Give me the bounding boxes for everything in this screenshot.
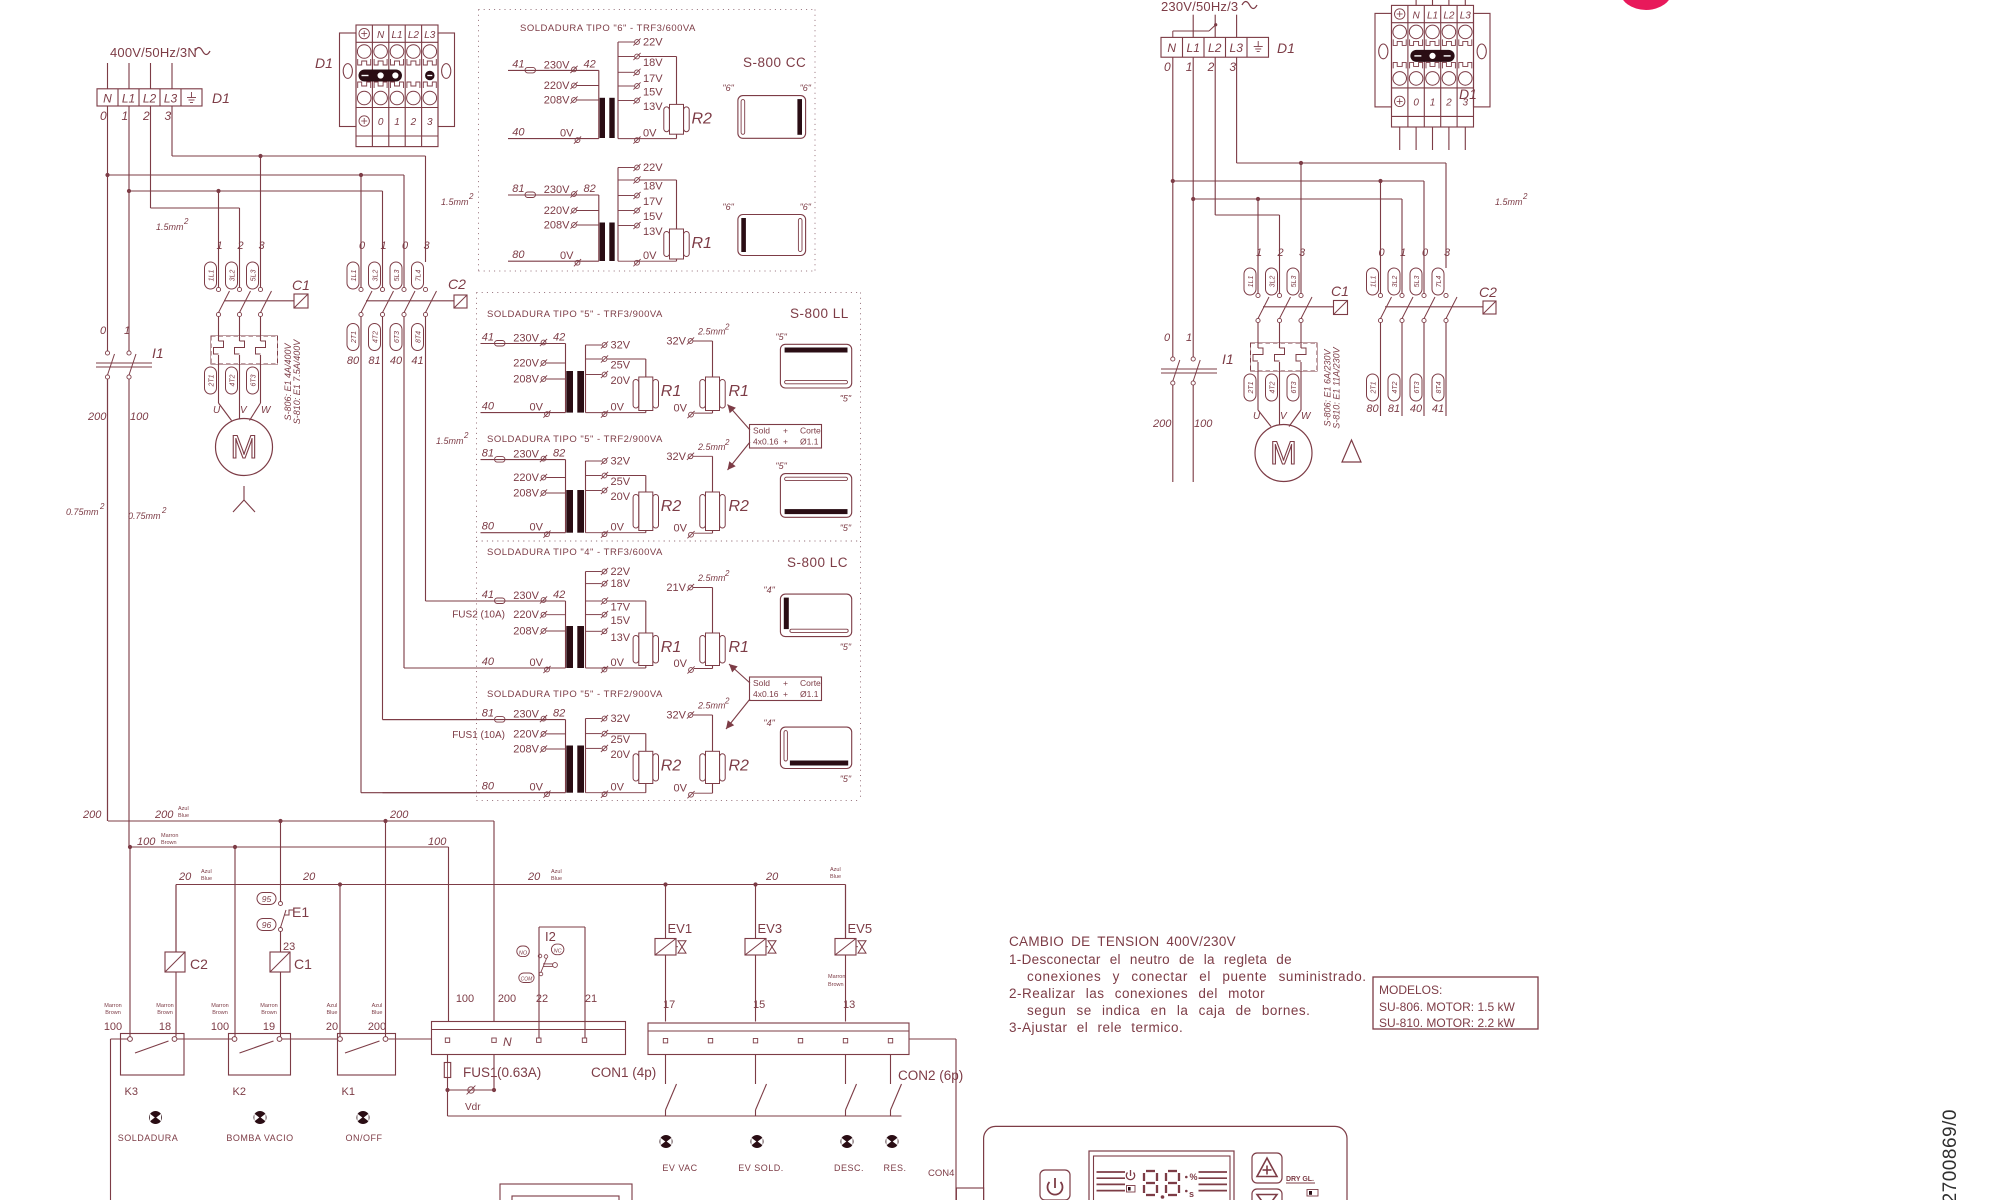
svg-text:2.5mm: 2.5mm (697, 442, 726, 452)
svg-text:2: 2 (99, 502, 105, 511)
svg-text:L2: L2 (408, 30, 420, 41)
svg-text:D1: D1 (1459, 86, 1477, 102)
svg-text:Corte: Corte (800, 426, 821, 436)
svg-text:32V: 32V (666, 710, 686, 722)
svg-text:15V: 15V (643, 87, 663, 99)
svg-text:S-800 LL: S-800 LL (790, 306, 849, 321)
svg-text:"6": "6" (722, 83, 734, 93)
svg-text:0V: 0V (674, 658, 688, 670)
svg-text:0: 0 (100, 325, 107, 337)
svg-text:M: M (1270, 435, 1297, 471)
svg-text:"5": "5" (840, 523, 852, 533)
svg-text:6T3: 6T3 (1291, 381, 1298, 393)
svg-text:Marron: Marron (161, 833, 178, 839)
svg-text:ON/OFF: ON/OFF (346, 1133, 383, 1143)
svg-text:Azul: Azul (327, 1003, 338, 1009)
svg-text:1L1: 1L1 (351, 270, 358, 282)
svg-text:1.5mm: 1.5mm (436, 436, 464, 446)
svg-text:230V: 230V (513, 709, 539, 721)
svg-text:N: N (1412, 10, 1420, 21)
svg-text:- 2700869/0: - 2700869/0 (1940, 1109, 1961, 1200)
svg-text:200: 200 (82, 809, 102, 821)
svg-text:80: 80 (482, 521, 495, 533)
svg-text:K3: K3 (125, 1086, 138, 1098)
svg-text:D1: D1 (212, 90, 230, 106)
svg-text:0V: 0V (611, 782, 625, 794)
svg-text:208V: 208V (513, 744, 539, 756)
svg-text:0V: 0V (643, 128, 657, 140)
svg-text:7L4: 7L4 (1436, 276, 1443, 288)
svg-text:1L1: 1L1 (1248, 276, 1255, 288)
svg-text:Azul: Azul (201, 869, 212, 875)
svg-text:200: 200 (389, 809, 409, 821)
svg-text:SOLDADURA: SOLDADURA (118, 1133, 179, 1143)
svg-text:Vdr: Vdr (465, 1102, 481, 1113)
svg-text:42: 42 (584, 58, 596, 70)
svg-text:"6": "6" (722, 202, 734, 212)
svg-text:96: 96 (262, 920, 272, 930)
svg-text:+: + (783, 437, 788, 447)
svg-text:I1: I1 (152, 345, 164, 361)
svg-text:Blue: Blue (551, 876, 562, 882)
svg-text:17: 17 (663, 999, 675, 1011)
svg-text:230V: 230V (544, 184, 570, 196)
svg-text:95: 95 (262, 894, 272, 904)
svg-text:"5": "5" (775, 332, 787, 342)
svg-text:2.5mm: 2.5mm (697, 327, 726, 337)
svg-text:208V: 208V (544, 220, 570, 232)
svg-text:Marron: Marron (104, 1003, 121, 1009)
svg-text:FUS1 (10A): FUS1 (10A) (452, 730, 505, 741)
svg-text:SOLDADURA TIPO "5" - TRF2/900V: SOLDADURA TIPO "5" - TRF2/900VA (487, 434, 663, 445)
svg-text:S-810: E1 7.5A/400V: S-810: E1 7.5A/400V (292, 339, 302, 425)
svg-text:0: 0 (378, 117, 384, 128)
svg-text:40: 40 (482, 401, 495, 413)
svg-text:R1: R1 (692, 235, 712, 252)
svg-text:Brown: Brown (105, 1010, 121, 1016)
svg-text:40: 40 (390, 355, 403, 367)
svg-text:0V: 0V (560, 128, 574, 140)
svg-text:100: 100 (1194, 418, 1213, 430)
svg-text:1: 1 (122, 109, 129, 123)
svg-text:22V: 22V (643, 162, 663, 174)
svg-text:100: 100 (137, 836, 156, 848)
svg-text:L3: L3 (1230, 41, 1244, 55)
svg-text:0: 0 (1379, 247, 1386, 259)
svg-text:L2: L2 (143, 91, 157, 105)
svg-text:L2: L2 (1208, 41, 1222, 55)
svg-text:SOLDADURA TIPO "6" - TRF3/600V: SOLDADURA TIPO "6" - TRF3/600VA (520, 23, 696, 34)
svg-text:R2: R2 (692, 110, 713, 127)
svg-text:"5": "5" (840, 642, 852, 652)
svg-text:200: 200 (498, 993, 516, 1005)
svg-text:2: 2 (1522, 192, 1528, 201)
svg-text:32V: 32V (666, 451, 686, 463)
svg-text:1: 1 (1430, 97, 1436, 108)
svg-text:32V: 32V (611, 456, 631, 468)
svg-text:81: 81 (482, 448, 494, 460)
svg-text:EV3: EV3 (758, 921, 783, 936)
svg-text:FUS2 (10A): FUS2 (10A) (452, 610, 505, 621)
svg-text:D1: D1 (315, 55, 333, 71)
svg-text:R1: R1 (729, 383, 749, 400)
svg-text:80: 80 (1366, 403, 1379, 415)
svg-text:Brown: Brown (212, 1010, 228, 1016)
svg-text:1L1: 1L1 (1371, 276, 1378, 288)
svg-text:2T1: 2T1 (1248, 381, 1255, 394)
svg-text:Azul: Azul (178, 806, 189, 812)
svg-text:R2: R2 (729, 498, 750, 515)
svg-text:2: 2 (468, 192, 474, 201)
svg-text:6T3: 6T3 (251, 374, 258, 386)
svg-text:13V: 13V (643, 226, 663, 238)
svg-text:s: s (1189, 1189, 1194, 1199)
svg-text:L1: L1 (122, 91, 135, 105)
svg-text:0V: 0V (530, 657, 544, 669)
svg-text:Ø1.1: Ø1.1 (800, 437, 819, 447)
svg-text:L2: L2 (1443, 10, 1455, 21)
svg-text:DRY GL.: DRY GL. (1286, 1176, 1314, 1183)
svg-text:SU-806. MOTOR: 1.5 kW: SU-806. MOTOR: 1.5 kW (1379, 1000, 1515, 1014)
svg-text:100: 100 (104, 1021, 122, 1033)
svg-text:EV SOLD.: EV SOLD. (738, 1163, 784, 1173)
svg-text:Corte: Corte (800, 678, 821, 688)
svg-text:20: 20 (326, 1021, 338, 1033)
svg-text:2: 2 (724, 569, 730, 578)
svg-text:13V: 13V (643, 101, 663, 113)
svg-text:41: 41 (411, 355, 423, 367)
svg-text:0V: 0V (611, 657, 625, 669)
svg-text:6T3: 6T3 (394, 331, 401, 343)
svg-text:15: 15 (753, 999, 765, 1011)
svg-text:40: 40 (512, 127, 525, 139)
svg-text:17V: 17V (643, 196, 663, 208)
svg-text:RES.: RES. (883, 1163, 906, 1173)
svg-text:0V: 0V (530, 402, 544, 414)
svg-text:Brown: Brown (261, 1010, 277, 1016)
svg-text:0V: 0V (674, 783, 688, 795)
svg-text:82: 82 (584, 183, 596, 195)
svg-text:18V: 18V (643, 181, 663, 193)
svg-text:100: 100 (428, 836, 447, 848)
svg-text:208V: 208V (513, 488, 539, 500)
svg-text:S-810: E1 11A/230V: S-810: E1 11A/230V (1332, 346, 1342, 428)
svg-text:1.5mm: 1.5mm (1495, 197, 1523, 207)
svg-text:32V: 32V (666, 336, 686, 348)
svg-text:1.5mm: 1.5mm (156, 222, 184, 232)
svg-text:1: 1 (394, 117, 400, 128)
svg-text:20: 20 (302, 871, 316, 883)
svg-text:1: 1 (1256, 247, 1262, 259)
svg-text:220V: 220V (544, 80, 570, 92)
svg-text:208V: 208V (513, 374, 539, 386)
svg-text:42: 42 (553, 589, 565, 601)
svg-text:R2: R2 (729, 757, 750, 774)
svg-text:Marron: Marron (211, 1003, 228, 1009)
svg-text:5L3: 5L3 (251, 270, 258, 282)
svg-text:SOLDADURA TIPO "5" - TRF3/900V: SOLDADURA TIPO "5" - TRF3/900VA (487, 309, 663, 320)
svg-text:80: 80 (347, 355, 360, 367)
svg-text:"5": "5" (840, 774, 852, 784)
svg-text:BOMBA VACIO: BOMBA VACIO (226, 1133, 293, 1143)
svg-text:200: 200 (368, 1021, 386, 1033)
svg-text:81: 81 (482, 708, 494, 720)
svg-text:1: 1 (381, 240, 387, 252)
svg-text:20: 20 (765, 871, 779, 883)
svg-text:Blue: Blue (830, 874, 841, 880)
svg-text:81: 81 (368, 355, 380, 367)
svg-text:82: 82 (553, 448, 565, 460)
svg-text:200: 200 (154, 809, 174, 821)
svg-text:41: 41 (482, 332, 494, 344)
svg-text:400V/50Hz/3N: 400V/50Hz/3N (110, 45, 197, 60)
svg-text:1: 1 (1400, 247, 1406, 259)
svg-text:100: 100 (130, 411, 149, 423)
svg-text:U: U (213, 405, 221, 416)
svg-text:4x0.16: 4x0.16 (753, 689, 779, 699)
svg-text:32V: 32V (611, 340, 631, 352)
svg-text:25V: 25V (611, 360, 631, 372)
svg-text:(0.63A): (0.63A) (497, 1065, 541, 1080)
svg-text:C2: C2 (1479, 284, 1497, 300)
svg-text:230V: 230V (513, 333, 539, 345)
svg-text:2: 2 (1207, 60, 1215, 74)
svg-text:0V: 0V (643, 250, 657, 262)
svg-text:220V: 220V (513, 358, 539, 370)
svg-text:S-800 LC: S-800 LC (787, 555, 848, 570)
svg-text:C2: C2 (190, 956, 208, 972)
svg-text:CON4: CON4 (928, 1168, 954, 1179)
svg-text:C1: C1 (1331, 283, 1349, 299)
svg-text:1: 1 (124, 325, 130, 337)
svg-text:0: 0 (1413, 97, 1419, 108)
svg-text:"5": "5" (840, 394, 852, 404)
svg-text:conexiones y conectar el puent: conexiones y conectar el puente suminist… (1027, 969, 1367, 984)
svg-text:100: 100 (211, 1021, 229, 1033)
svg-text:N: N (377, 30, 385, 41)
svg-text:D1: D1 (1277, 40, 1295, 56)
svg-text:3L2: 3L2 (373, 270, 380, 282)
svg-text:4T2: 4T2 (373, 331, 380, 343)
svg-text:R1: R1 (729, 639, 749, 656)
svg-text:Blue: Blue (178, 813, 189, 819)
svg-text:0: 0 (359, 240, 366, 252)
svg-text:230V: 230V (513, 449, 539, 461)
svg-text:17V: 17V (643, 73, 663, 85)
svg-text:200: 200 (1152, 418, 1172, 430)
svg-text:EV1: EV1 (668, 921, 693, 936)
svg-text:SOLDADURA TIPO "5" - TRF2/900V: SOLDADURA TIPO "5" - TRF2/900VA (487, 689, 663, 700)
svg-text:Blue: Blue (201, 876, 212, 882)
svg-text:Brown: Brown (161, 840, 177, 846)
svg-text:100: 100 (456, 993, 474, 1005)
svg-text:W: W (1301, 411, 1312, 422)
svg-text:N: N (1167, 41, 1176, 55)
svg-text:Marron: Marron (828, 974, 845, 980)
svg-text:FUS1: FUS1 (463, 1065, 498, 1080)
svg-text:8T4: 8T4 (416, 331, 423, 343)
svg-text:3L2: 3L2 (1270, 276, 1277, 288)
svg-text:3L2: 3L2 (1392, 276, 1399, 288)
svg-text:2: 2 (724, 438, 730, 447)
svg-text:N: N (103, 91, 112, 105)
svg-text:17V: 17V (611, 602, 631, 614)
svg-text:220V: 220V (513, 472, 539, 484)
svg-text:Azul: Azul (830, 867, 841, 873)
svg-text:I1: I1 (1222, 351, 1234, 367)
svg-text:%: % (1190, 1172, 1198, 1182)
svg-text:1-Desconectar el neutro de la: 1-Desconectar el neutro de la regleta de (1009, 952, 1292, 967)
svg-text:CON1 (4p): CON1 (4p) (591, 1065, 656, 1080)
svg-text:SOLDADURA TIPO "4" - TRF3/600V: SOLDADURA TIPO "4" - TRF3/600VA (487, 547, 663, 558)
svg-text:1: 1 (1186, 332, 1192, 344)
svg-text:M: M (231, 429, 258, 465)
svg-text:20: 20 (178, 871, 192, 883)
svg-text:R2: R2 (661, 498, 682, 515)
svg-text:Blue: Blue (371, 1010, 382, 1016)
svg-text:NC: NC (554, 949, 562, 955)
svg-text:L1: L1 (391, 30, 402, 41)
svg-text:Blue: Blue (326, 1010, 337, 1016)
svg-text:13: 13 (843, 999, 855, 1011)
svg-text:L3: L3 (164, 91, 178, 105)
svg-text:2T1: 2T1 (1371, 381, 1378, 394)
svg-text:DESC.: DESC. (834, 1163, 864, 1173)
svg-text:220V: 220V (513, 609, 539, 621)
svg-text:CON2 (6p): CON2 (6p) (898, 1068, 963, 1083)
svg-text:2: 2 (237, 240, 244, 252)
svg-text:3: 3 (165, 109, 172, 123)
svg-text:41: 41 (512, 58, 524, 70)
svg-text:0V: 0V (560, 250, 574, 262)
svg-text:40: 40 (482, 656, 495, 668)
svg-text:1: 1 (1186, 60, 1193, 74)
svg-text:41: 41 (482, 589, 494, 601)
svg-text:22V: 22V (643, 37, 663, 49)
svg-text:3: 3 (1229, 60, 1236, 74)
svg-text:6T3: 6T3 (1414, 381, 1421, 393)
svg-text:0: 0 (1422, 247, 1429, 259)
svg-text:"4": "4" (763, 585, 775, 595)
svg-text:2: 2 (1445, 97, 1452, 108)
svg-text:CAMBIO DE TENSION 400V/230V: CAMBIO DE TENSION 400V/230V (1009, 934, 1236, 949)
svg-text:208V: 208V (513, 626, 539, 638)
svg-text:Azul: Azul (372, 1003, 383, 1009)
svg-text:230V: 230V (513, 590, 539, 602)
svg-text:41: 41 (1432, 403, 1444, 415)
svg-text:2: 2 (161, 506, 167, 515)
svg-text:80: 80 (512, 249, 525, 261)
svg-text:4x0.16: 4x0.16 (753, 437, 779, 447)
svg-text:"4": "4" (763, 718, 775, 728)
svg-text:0: 0 (402, 240, 409, 252)
svg-text:20V: 20V (611, 375, 631, 387)
svg-text:2T1: 2T1 (351, 331, 358, 344)
svg-text:220V: 220V (544, 205, 570, 217)
svg-text:+: + (783, 678, 788, 688)
svg-text:3-Ajustar el rele termico.: 3-Ajustar el rele termico. (1009, 1020, 1183, 1035)
svg-text:81: 81 (1388, 403, 1400, 415)
svg-text:0: 0 (100, 109, 107, 123)
svg-text:L1: L1 (1427, 10, 1438, 21)
svg-text:2: 2 (410, 117, 417, 128)
svg-text:E1: E1 (292, 904, 309, 920)
svg-text:20: 20 (527, 871, 541, 883)
svg-text:3: 3 (1444, 247, 1451, 259)
svg-text:EV5: EV5 (848, 921, 873, 936)
svg-text:25V: 25V (611, 476, 631, 488)
svg-text:Sold: Sold (753, 678, 770, 688)
svg-text:1: 1 (217, 240, 223, 252)
svg-text:2: 2 (1277, 247, 1284, 259)
svg-text:20V: 20V (611, 749, 631, 761)
svg-text:3: 3 (424, 240, 431, 252)
svg-text:3L2: 3L2 (230, 270, 237, 282)
svg-text:3: 3 (1299, 247, 1306, 259)
svg-text:15V: 15V (611, 615, 631, 627)
svg-text:2-Realizar las conexiones del: 2-Realizar las conexiones del motor (1009, 986, 1265, 1001)
svg-text:0V: 0V (674, 523, 688, 535)
svg-text:18V: 18V (643, 57, 663, 69)
svg-text:82: 82 (553, 708, 565, 720)
svg-text:40: 40 (1410, 403, 1423, 415)
svg-text:NO: NO (519, 951, 528, 957)
svg-text:0V: 0V (611, 402, 625, 414)
svg-text:230V: 230V (544, 59, 570, 71)
svg-text:W: W (261, 405, 272, 416)
svg-text:5L3: 5L3 (1414, 276, 1421, 288)
svg-text:0.75mm: 0.75mm (128, 511, 161, 521)
svg-text:L3: L3 (1460, 10, 1472, 21)
svg-text:2: 2 (463, 431, 469, 440)
svg-text:R1: R1 (661, 383, 681, 400)
svg-text:L1: L1 (1187, 41, 1200, 55)
svg-text:22V: 22V (611, 566, 631, 578)
svg-text:0: 0 (1164, 332, 1171, 344)
svg-text:I2: I2 (545, 929, 556, 944)
svg-text:Marron: Marron (156, 1003, 173, 1009)
svg-text:0.75mm: 0.75mm (66, 507, 99, 517)
svg-text:7L4: 7L4 (416, 270, 423, 282)
svg-text:22: 22 (536, 993, 548, 1005)
svg-text:COM: COM (521, 977, 534, 983)
svg-text:21V: 21V (666, 582, 686, 594)
svg-text:+: + (783, 689, 788, 699)
svg-text:"6": "6" (800, 202, 812, 212)
svg-text:EV VAC: EV VAC (662, 1163, 697, 1173)
svg-text:8T4: 8T4 (1436, 381, 1443, 393)
svg-text:19: 19 (263, 1021, 275, 1033)
svg-text:Marron: Marron (260, 1003, 277, 1009)
svg-text:2T1: 2T1 (209, 374, 216, 387)
svg-text:208V: 208V (544, 95, 570, 107)
svg-text:N: N (503, 1035, 512, 1049)
svg-text:2: 2 (183, 217, 189, 226)
svg-text:230V/50Hz/3: 230V/50Hz/3 (1161, 0, 1238, 14)
svg-text:Sold: Sold (753, 426, 770, 436)
svg-text:R1: R1 (661, 639, 681, 656)
svg-text:MODELOS:: MODELOS: (1379, 983, 1442, 997)
svg-text:C1: C1 (294, 956, 312, 972)
svg-text:2: 2 (724, 323, 730, 332)
svg-text:Ø1.1: Ø1.1 (800, 689, 819, 699)
svg-text:18V: 18V (611, 578, 631, 590)
svg-text:0V: 0V (611, 522, 625, 534)
svg-text:L3: L3 (424, 30, 436, 41)
svg-text:1.5mm: 1.5mm (441, 197, 469, 207)
svg-text:R2: R2 (661, 757, 682, 774)
svg-text:80: 80 (482, 781, 495, 793)
